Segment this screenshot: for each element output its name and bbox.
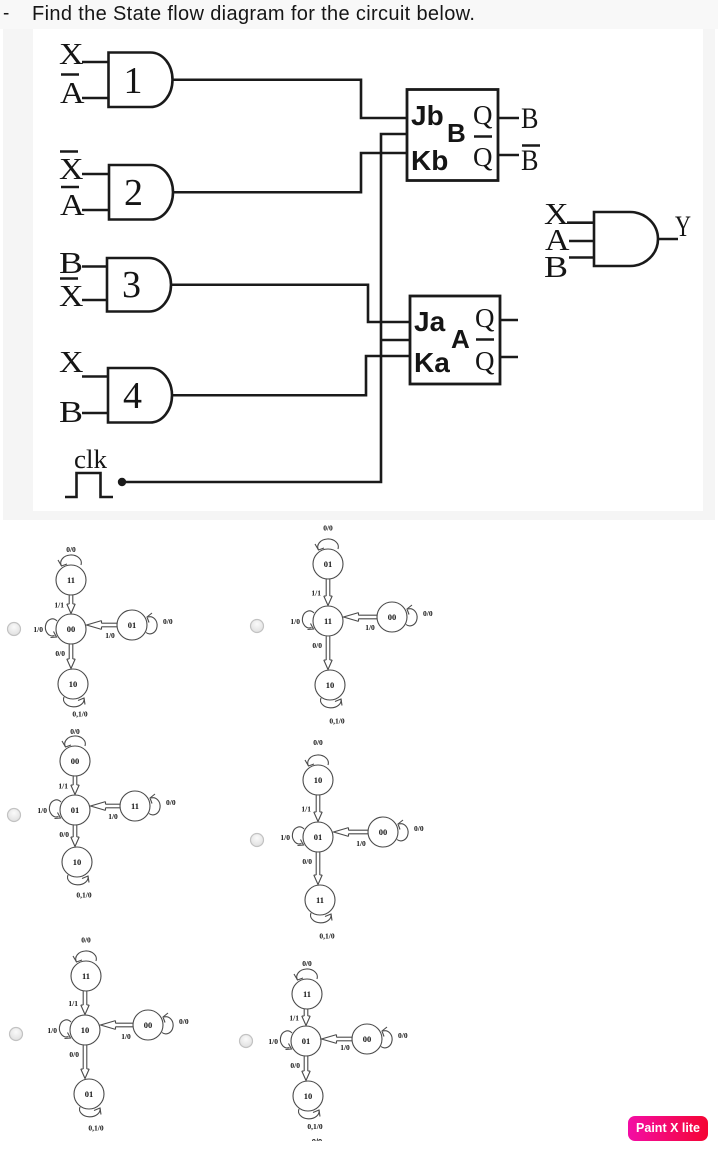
svg-text:0/0: 0/0 [163, 617, 173, 626]
svg-text:Jb: Jb [411, 100, 444, 131]
svg-text:00: 00 [71, 756, 80, 766]
svg-text:01: 01 [128, 620, 137, 630]
svg-text:Q: Q [475, 346, 495, 376]
svg-text:00: 00 [379, 827, 388, 837]
option A self loop on 11 [58, 555, 81, 566]
option E self loop on 01 [80, 1107, 101, 1117]
svg-text:0/0: 0/0 [323, 524, 333, 533]
svg-text:1/1: 1/1 [58, 782, 68, 791]
svg-text:10: 10 [304, 1091, 313, 1101]
cropped label 0/0 at page bottom [306, 1137, 328, 1141]
option B label 0/0 (right loop) [423, 609, 433, 618]
svg-text:1/0: 1/0 [280, 833, 290, 842]
option A state node 01 (right) [117, 610, 147, 640]
svg-text:0,1/0: 0,1/0 [329, 717, 344, 726]
option D arrow 00 to 01 [334, 828, 369, 837]
wire gate1 to Jb [173, 80, 408, 118]
option E state node 00 (right) [133, 1010, 163, 1040]
options section [0, 520, 718, 1150]
svg-text:1/1: 1/1 [311, 589, 321, 598]
option D self loop on 00 [397, 820, 408, 841]
Paint X lite badge [628, 1116, 708, 1141]
option D state node 11 (bottom) [305, 885, 335, 915]
option D label 1/0 (arrow 00 to 01) [356, 839, 366, 848]
clock wire [126, 134, 407, 482]
white circuit panel [33, 29, 703, 511]
svg-text:1/0: 1/0 [33, 625, 43, 634]
option C label 1/0 (arrow 11 to 01) [108, 812, 118, 821]
option A arrow 01 to 00 [87, 621, 118, 630]
input label B gate3 [59, 245, 83, 280]
svg-text:1/1: 1/1 [68, 999, 78, 1008]
option F arrow 11 to 01 [302, 1009, 310, 1026]
svg-text:1/0: 1/0 [340, 1043, 350, 1052]
option C radio button [8, 809, 21, 822]
svg-text:01: 01 [314, 832, 323, 842]
option D label 0/0 (top loop) [313, 738, 323, 747]
option C state node 00 (top) [60, 746, 90, 776]
svg-text:0/0: 0/0 [69, 1050, 79, 1059]
svg-text:Ja: Ja [414, 306, 446, 337]
option C self loop on 01 (left) [49, 800, 61, 819]
option B self loop on 01 [315, 539, 338, 550]
svg-text:0/0: 0/0 [313, 738, 323, 747]
svg-text:0/0: 0/0 [55, 649, 65, 658]
svg-text:B: B [544, 249, 568, 284]
svg-text:B: B [521, 144, 539, 177]
option A label 1/0 (left loop) [33, 625, 43, 634]
label Ka [414, 347, 450, 378]
option F label 0,1/0 (bottom loop) [307, 1122, 322, 1131]
wire X to Y gate [567, 221, 594, 224]
svg-text:1/0: 1/0 [105, 631, 115, 640]
svg-text:11: 11 [303, 989, 311, 999]
option C state node 11 (right) [120, 791, 150, 821]
option E label 0/0 (right loop) [179, 1017, 189, 1026]
circuit schematic svg [33, 29, 703, 511]
svg-text:01: 01 [324, 559, 333, 569]
option F self loop on 00 [381, 1027, 392, 1048]
svg-text:1/0: 1/0 [356, 839, 366, 848]
svg-text:00: 00 [388, 612, 397, 622]
svg-text:Y: Y [675, 210, 691, 243]
wire gate2 to Kb [173, 153, 407, 192]
svg-text:A: A [451, 324, 470, 354]
wire Qbar A output [500, 356, 518, 359]
svg-text:0/0: 0/0 [290, 1061, 300, 1070]
output label Bbar [521, 144, 540, 177]
option D arrow 01 to 11 [314, 852, 322, 885]
and gate 4 [108, 368, 172, 423]
option E label 0/0 (top loop) [81, 936, 91, 945]
and gate 2 [109, 165, 173, 220]
output and gate Y [594, 212, 658, 266]
clk junction dot [118, 478, 126, 486]
label A input of Y gate [545, 222, 570, 257]
svg-text:0,1/0: 0,1/0 [88, 1124, 103, 1133]
option F label 1/0 (arrow 00 to 01) [340, 1043, 350, 1052]
svg-text:00: 00 [363, 1034, 372, 1044]
svg-text:1/1: 1/1 [289, 1014, 299, 1023]
svg-text:00: 00 [67, 624, 76, 634]
svg-text:0/0: 0/0 [312, 641, 322, 650]
svg-text:4: 4 [123, 375, 142, 417]
label Ja [414, 306, 446, 337]
option C state node 01 (center) [60, 795, 90, 825]
clock branch to A [381, 339, 410, 342]
option D state node 01 (center) [303, 822, 333, 852]
option D label 0,1/0 (bottom loop) [319, 932, 334, 941]
svg-text:1/0: 1/0 [37, 806, 47, 815]
label Qbar of B [473, 137, 493, 173]
svg-text:10: 10 [73, 857, 82, 867]
option D self loop on 01 (left) [292, 827, 304, 846]
svg-text:11: 11 [82, 971, 90, 981]
option B label 0/0 (top loop) [323, 524, 333, 533]
option F state node 11 (top) [292, 979, 322, 1009]
option A state node 10 (bottom) [58, 669, 88, 699]
option E label 0,1/0 (bottom loop) [88, 1124, 103, 1133]
svg-text:01: 01 [85, 1089, 94, 1099]
option B self loop on 10 [321, 698, 342, 708]
flip-flop B box [407, 90, 498, 181]
option B arrow 01 to 11 [324, 579, 332, 606]
output label B [521, 102, 539, 135]
svg-text:B: B [59, 394, 83, 429]
svg-text:1/1: 1/1 [54, 601, 64, 610]
svg-text:0,1/0: 0,1/0 [319, 932, 334, 941]
option C state node 10 (bottom) [62, 847, 92, 877]
option E label 1/1 [68, 999, 78, 1008]
svg-text:clk: clk [74, 445, 107, 474]
option B radio button [251, 620, 264, 633]
svg-text:0/0: 0/0 [414, 824, 424, 833]
svg-text:A: A [60, 187, 85, 222]
svg-text:0/0: 0/0 [423, 609, 433, 618]
svg-text:10: 10 [81, 1025, 90, 1035]
wire Xbar to gate2 [82, 173, 109, 176]
option B label 0,1/0 (bottom loop) [329, 717, 344, 726]
svg-text:Q: Q [473, 142, 493, 172]
option B state node 10 (bottom) [315, 670, 345, 700]
option E label 0/0 (arrow 10 to 01) [69, 1050, 79, 1059]
option D label 0/0 (arrow 01 to 11) [302, 857, 312, 866]
svg-text:11: 11 [316, 895, 324, 905]
option E self loop on 11 [73, 951, 96, 962]
option F self loop on 01 (left) [280, 1031, 292, 1050]
svg-text:11: 11 [324, 616, 332, 626]
svg-text:Kb: Kb [411, 145, 448, 176]
svg-text:0/0: 0/0 [70, 727, 80, 736]
svg-text:1/0: 1/0 [121, 1032, 131, 1041]
option A self loop on 01 [146, 613, 157, 634]
option A self loop on 00 (left) [45, 619, 57, 638]
option B state node 11 (center) [313, 606, 343, 636]
label 2 [124, 172, 143, 214]
option E state node 01 (bottom) [74, 1079, 104, 1109]
option D radio button [251, 834, 264, 847]
option D state node 10 (top) [303, 765, 333, 795]
svg-text:3: 3 [122, 264, 141, 306]
svg-text:0/0: 0/0 [81, 936, 91, 945]
option A self loop on 10 [64, 697, 85, 707]
svg-text:0,1/0: 0,1/0 [72, 710, 87, 719]
svg-text:0,1/0: 0,1/0 [76, 891, 91, 900]
wire B to Y gate [569, 256, 594, 259]
wire Qbar B output [498, 154, 519, 157]
wire Xbar to gate3 [82, 299, 107, 302]
option B label 0/0 (arrow 11 to 10) [312, 641, 322, 650]
svg-text:B: B [521, 102, 539, 135]
option B self loop on 11 (left) [302, 611, 314, 630]
label B input of Y gate [544, 249, 568, 284]
option B label 1/1 [311, 589, 321, 598]
wire Q B output [498, 117, 519, 120]
option A label 0/0 (arrow 00 to 10) [55, 649, 65, 658]
option A label 1/1 [54, 601, 64, 610]
label Kb [411, 145, 448, 176]
option D arrow 10 to 01 [314, 795, 322, 822]
option A label 0,1/0 (bottom loop) [72, 710, 87, 719]
label Y [675, 210, 691, 243]
svg-text:2: 2 [124, 172, 143, 214]
option B label 1/0 (arrow 00 to 11) [365, 623, 375, 632]
svg-text:0/0: 0/0 [302, 959, 312, 968]
svg-text:0/0: 0/0 [302, 857, 312, 866]
option C self loop on 00 [62, 736, 85, 747]
option F self loop on 10 [299, 1109, 320, 1119]
option E self loop on 00 [162, 1013, 173, 1034]
svg-text:11: 11 [67, 575, 75, 585]
option E state node 11 (top) [71, 961, 101, 991]
option E state node 10 (center) [70, 1015, 100, 1045]
input label X gate1 [59, 36, 84, 71]
wire Abar to gate1 [82, 97, 109, 100]
option C label 1/0 (left loop) [37, 806, 47, 815]
label A center [451, 324, 470, 354]
svg-text:01: 01 [302, 1036, 311, 1046]
svg-text:10: 10 [69, 679, 78, 689]
input label Abar gate1 [60, 75, 85, 111]
input label X gate4 [59, 344, 84, 379]
label 1 [124, 60, 143, 102]
svg-text:A: A [60, 75, 85, 110]
option F self loop on 11 [294, 969, 317, 980]
label Q of A [475, 303, 495, 333]
option A label 0/0 (right loop) [163, 617, 173, 626]
label B center [447, 118, 466, 148]
option A label 1/0 (arrow 01 to 00) [105, 631, 115, 640]
option A state node 00 (center) [56, 614, 86, 644]
svg-text:0/0: 0/0 [398, 1031, 408, 1040]
top gray section [0, 0, 718, 520]
option D self loop on 10 [305, 755, 328, 766]
and gate 3 [107, 258, 171, 312]
svg-text:01: 01 [71, 805, 80, 815]
label 4 [123, 375, 142, 417]
input label Abar gate2 [60, 187, 85, 222]
wire A to Y gate [569, 240, 594, 243]
option E arrow 10 to 01 [81, 1045, 89, 1079]
svg-text:10: 10 [314, 775, 323, 785]
svg-text:0/0: 0/0 [59, 830, 69, 839]
label Q of B [473, 100, 493, 130]
option A label 0/0 (top loop) [66, 545, 76, 554]
wire B to gate4 [82, 412, 108, 415]
option C label 0,1/0 (bottom loop) [76, 891, 91, 900]
and gate 1 [109, 53, 173, 108]
option F label 0/0 (arrow 01 to 10) [290, 1061, 300, 1070]
svg-text:X: X [59, 278, 84, 313]
clk pulse symbol [65, 473, 113, 497]
svg-text:1/0: 1/0 [47, 1026, 57, 1035]
option D state node 00 (right) [368, 817, 398, 847]
svg-text:Q: Q [473, 100, 493, 130]
option F arrow 00 to 01 [322, 1035, 353, 1044]
svg-text:1/0: 1/0 [268, 1037, 278, 1046]
option B label 1/0 (left loop) [290, 617, 300, 626]
option A arrow 00 to 10 [67, 644, 75, 669]
svg-text:0/0: 0/0 [66, 545, 76, 554]
svg-text:X: X [59, 151, 84, 186]
svg-text:Q: Q [475, 303, 495, 333]
label X input of Y gate [544, 196, 569, 231]
svg-text:0/0: 0/0 [179, 1017, 189, 1026]
svg-text:B: B [447, 118, 466, 148]
option B arrow 00 to 11 [344, 613, 378, 622]
wire Q A output [500, 319, 518, 322]
svg-text:1/0: 1/0 [108, 812, 118, 821]
option C label 1/1 [58, 782, 68, 791]
option A radio button [8, 623, 21, 636]
option E arrow 11 to 10 [81, 991, 89, 1015]
option C label 0/0 (arrow 01 to 10) [59, 830, 69, 839]
option E label 1/0 (arrow 00 to 10) [121, 1032, 131, 1041]
svg-text:B: B [59, 245, 83, 280]
svg-text:1: 1 [124, 60, 143, 102]
label Jb [411, 100, 444, 131]
option D label 1/1 [301, 805, 311, 814]
option B state node 00 (right) [377, 602, 407, 632]
option C self loop on 10 [68, 875, 89, 885]
wire gate3 to Ja [171, 285, 410, 322]
option F label 0/0 (top loop) [302, 959, 312, 968]
option B state node 01 (top) [313, 549, 343, 579]
option F radio button [240, 1035, 253, 1048]
option F arrow 01 to 10 [302, 1056, 310, 1081]
option F state node 01 (center) [291, 1026, 321, 1056]
input label B gate4 [59, 394, 83, 429]
option A state node 11 (top) [56, 565, 86, 595]
input label Xbar gate3 [59, 278, 84, 313]
right page edge white strip [715, 0, 718, 520]
svg-text:X: X [59, 344, 84, 379]
option C label 0/0 (right loop) [166, 798, 176, 807]
option F state node 10 (bottom) [293, 1081, 323, 1111]
option F label 1/1 [289, 1014, 299, 1023]
svg-text:0,1/0: 0,1/0 [307, 1122, 322, 1131]
svg-text:11: 11 [131, 801, 139, 811]
wire B to gate3 [82, 265, 107, 268]
option A arrow 11 to 00 [67, 595, 75, 614]
wire Abar to gate2 [82, 209, 109, 212]
option E self loop on 10 (left) [59, 1020, 71, 1039]
question bar [0, 0, 718, 29]
svg-text:1/0: 1/0 [365, 623, 375, 632]
clk label [74, 445, 107, 474]
option C arrow 01 to 10 [71, 825, 79, 847]
wire X to gate1 [82, 61, 109, 64]
option E radio button [10, 1028, 23, 1041]
svg-text:Ka: Ka [414, 347, 450, 378]
option F label 1/0 (left loop) [268, 1037, 278, 1046]
option E arrow 00 to 10 [101, 1021, 134, 1030]
option B self loop on 00 [406, 605, 417, 626]
svg-text:1/1: 1/1 [301, 805, 311, 814]
label Qbar of A [475, 340, 495, 377]
option D self loop on 11 [311, 913, 332, 923]
flip-flop A box [410, 296, 500, 384]
option B arrow 11 to 10 [324, 636, 332, 670]
option C arrow 00 to 01 [71, 776, 79, 795]
wire gate4 to Ka [172, 356, 410, 395]
option F state node 00 (right) [352, 1024, 382, 1054]
input label Xbar gate2 [59, 151, 84, 186]
option C label 0/0 (top loop) [70, 727, 80, 736]
label 3 [122, 264, 141, 306]
svg-text:X: X [59, 36, 84, 71]
option E label 1/0 (left loop) [47, 1026, 57, 1035]
option D label 1/0 (left loop) [280, 833, 290, 842]
svg-text:10: 10 [326, 680, 335, 690]
wire X to gate4 [82, 375, 108, 378]
left page edge white strip [0, 0, 3, 520]
wire Y output [658, 238, 678, 241]
svg-text:0/0: 0/0 [166, 798, 176, 807]
option C self loop on 11 [149, 794, 160, 815]
option C arrow 11 to 01 [91, 802, 121, 811]
svg-text:1/0: 1/0 [290, 617, 300, 626]
svg-text:00: 00 [144, 1020, 153, 1030]
option D label 0/0 (right loop) [414, 824, 424, 833]
option F label 0/0 (right loop) [398, 1031, 408, 1040]
